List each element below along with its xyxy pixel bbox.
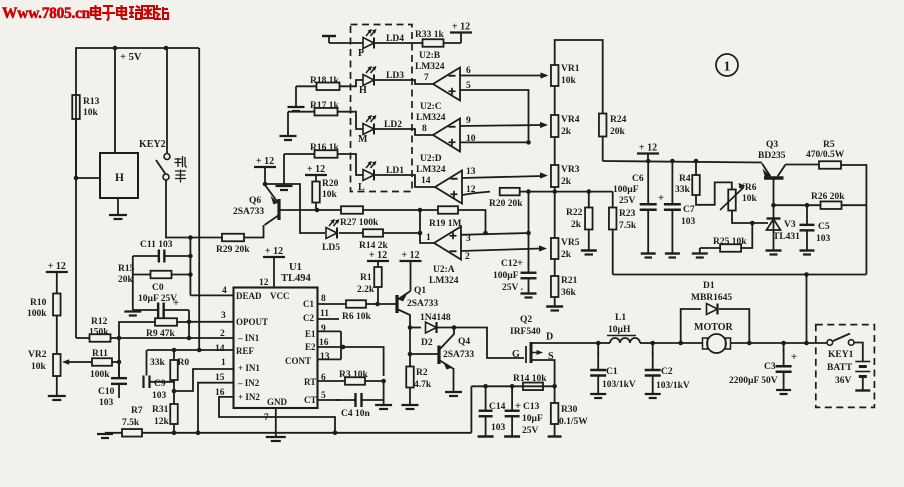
svg-text:12: 12 xyxy=(259,278,269,288)
potentiometer VR5 xyxy=(551,238,559,259)
ground R25 xyxy=(699,248,701,253)
wire D2 to Q2 gate xyxy=(454,328,524,359)
svg-text:DEAD: DEAD xyxy=(236,291,262,301)
svg-text:D: D xyxy=(546,332,553,343)
ground H xyxy=(117,198,119,214)
svg-text:C10: C10 xyxy=(98,387,115,397)
svg-text:3: 3 xyxy=(221,311,226,321)
svg-text:+ 12: + 12 xyxy=(452,22,470,33)
svg-text:Q3: Q3 xyxy=(766,140,778,150)
wire VR1 top loop xyxy=(555,40,603,113)
dashed box KEY1 BATT xyxy=(816,325,875,408)
wire U2A minus to VR5 wiper xyxy=(461,249,541,252)
svg-text:GND: GND xyxy=(267,397,288,407)
wire R13 to H box xyxy=(75,119,77,178)
svg-text:R3 10k: R3 10k xyxy=(339,370,368,380)
ground pin7 xyxy=(275,408,277,436)
op-amp U2:A xyxy=(434,227,461,260)
svg-text:+ 12: + 12 xyxy=(265,246,283,257)
svg-text:VR4: VR4 xyxy=(561,115,580,125)
svg-text:V3: V3 xyxy=(784,220,796,230)
svg-text:E2: E2 xyxy=(305,342,316,352)
resistor R23 xyxy=(612,192,614,208)
svg-text:103/1kV: 103/1kV xyxy=(602,380,636,390)
op-amp U2:C xyxy=(433,119,460,152)
switch KEY1 xyxy=(807,342,828,344)
label KEY2 brake char1 xyxy=(175,156,188,167)
svg-text:L: L xyxy=(358,182,365,193)
wire LD2 to U2C xyxy=(374,129,433,135)
capacitor C2 xyxy=(652,353,654,371)
led LD4 xyxy=(363,38,374,49)
wire LD1 to U2D xyxy=(374,175,435,187)
svg-text:20k: 20k xyxy=(610,127,626,137)
svg-text:12k: 12k xyxy=(154,417,170,427)
ground R7 xyxy=(104,432,106,434)
wire VR4-VR3 xyxy=(554,137,556,165)
ground R18 xyxy=(295,86,297,106)
svg-text:10k: 10k xyxy=(322,190,338,200)
node Q6 collector junction xyxy=(263,182,268,187)
svg-text:10k: 10k xyxy=(31,362,47,372)
wire KEY2 to R29 node xyxy=(166,180,223,238)
wire Q3 collector to R5 xyxy=(786,164,820,166)
svg-text:R31: R31 xyxy=(152,405,169,415)
label KEY2 brake char2 xyxy=(175,170,186,183)
svg-text:U2:C: U2:C xyxy=(420,102,442,112)
capacitor C3 xyxy=(783,349,785,366)
svg-text:C14: C14 xyxy=(489,402,506,412)
wire VR1-VR4 xyxy=(554,86,556,115)
svg-text:470/0.5W: 470/0.5W xyxy=(806,150,845,160)
pin C2 stub xyxy=(318,318,340,320)
svg-text:– IN1: – IN1 xyxy=(237,333,260,343)
svg-text:9: 9 xyxy=(321,324,326,334)
svg-text:P: P xyxy=(358,48,364,59)
wire -IN2 pin15 xyxy=(198,383,234,433)
svg-text:2SA733: 2SA733 xyxy=(407,299,438,309)
svg-text:LD5: LD5 xyxy=(322,243,340,253)
svg-text:R5: R5 xyxy=(823,140,835,150)
capacitor C5 xyxy=(806,205,808,225)
svg-text:2SA733: 2SA733 xyxy=(443,350,474,360)
svg-text:LM324: LM324 xyxy=(416,165,446,175)
wire R1 to Q1 base xyxy=(378,303,397,305)
svg-text:VCC: VCC xyxy=(270,291,290,301)
svg-text:R21: R21 xyxy=(561,276,578,286)
svg-text:2200µF 50V: 2200µF 50V xyxy=(729,376,778,386)
svg-text:7.5k: 7.5k xyxy=(122,418,140,428)
wire U2D plus to R20k xyxy=(462,193,475,195)
wire KEY2 node to DEAD xyxy=(189,238,191,296)
svg-text:+ 12: + 12 xyxy=(639,143,657,154)
led LD3 xyxy=(363,75,374,86)
svg-text:2SA733: 2SA733 xyxy=(233,207,264,217)
svg-text:C9: C9 xyxy=(154,379,166,389)
svg-text:R10: R10 xyxy=(30,298,47,308)
wire Q6 base xyxy=(279,209,317,211)
node source xyxy=(552,384,557,389)
wire R23 to sense rail xyxy=(612,230,614,275)
svg-text:C7: C7 xyxy=(683,205,695,215)
svg-text:10k: 10k xyxy=(742,194,758,204)
power +12 R33 xyxy=(444,42,462,44)
wire rail up to source node xyxy=(470,386,472,433)
wire C0 to node xyxy=(188,310,190,323)
svg-text:VR5: VR5 xyxy=(561,238,580,248)
wire VR5-R21 xyxy=(554,259,556,276)
svg-text:U2:A: U2:A xyxy=(433,265,455,275)
svg-text:36k: 36k xyxy=(561,288,577,298)
resistor R20 10k xyxy=(312,182,320,203)
wire +IN1 pin1 xyxy=(174,369,234,391)
svg-text:LM324: LM324 xyxy=(416,113,446,123)
wire left column to R12 xyxy=(75,178,77,338)
svg-text:G: G xyxy=(512,349,520,360)
svg-text:R30: R30 xyxy=(561,405,578,415)
op-amp U2:D xyxy=(435,171,462,204)
svg-text:4: 4 xyxy=(222,286,227,296)
svg-text:VR3: VR3 xyxy=(561,165,580,175)
wire R17 to LD2 xyxy=(338,112,364,129)
svg-text:150k: 150k xyxy=(89,328,109,338)
svg-text:+: + xyxy=(658,192,664,204)
potentiometer VR4 xyxy=(551,115,559,137)
svg-text:2: 2 xyxy=(465,252,470,262)
svg-text:R1: R1 xyxy=(360,273,372,283)
wire node-VR5 xyxy=(554,192,556,238)
ground C11 R15 rail xyxy=(132,256,134,310)
svg-text:VR6: VR6 xyxy=(738,183,757,193)
svg-text:25V: 25V xyxy=(522,426,539,436)
led LD2 xyxy=(363,124,374,135)
svg-text:LM324: LM324 xyxy=(415,62,445,72)
wire U2B plus down xyxy=(460,90,529,142)
ground R2 xyxy=(409,388,411,405)
resistor R31 xyxy=(170,404,178,424)
svg-text:R19 1M: R19 1M xyxy=(429,219,461,229)
svg-text:2.2k: 2.2k xyxy=(357,285,375,295)
svg-text:Www.7805.cn: Www.7805.cn xyxy=(2,5,91,22)
svg-text:11: 11 xyxy=(320,309,329,319)
svg-text:R4: R4 xyxy=(679,174,691,184)
dashed box LED block xyxy=(351,25,413,192)
wire LD3 to U2B xyxy=(374,80,433,84)
node drain xyxy=(596,341,601,346)
regulator V3 TL431 xyxy=(773,205,775,250)
svg-text:– IN2: – IN2 xyxy=(237,378,260,388)
resistor R6 xyxy=(346,300,366,308)
wire VR2 wiper to R11 xyxy=(77,361,92,363)
svg-text:15: 15 xyxy=(215,373,225,383)
wire H top xyxy=(114,48,116,153)
svg-text:TL494: TL494 xyxy=(281,273,312,284)
svg-text:C11 103: C11 103 xyxy=(140,240,173,250)
wire REF drop to C9 xyxy=(146,350,148,376)
svg-text:R20 20k: R20 20k xyxy=(489,199,523,209)
resistor R29 xyxy=(222,234,244,242)
led LD4 row terminal xyxy=(322,35,336,37)
svg-text:E1: E1 xyxy=(305,329,316,339)
wire E2 to R3 node xyxy=(343,347,384,376)
svg-text:Q1: Q1 xyxy=(414,286,426,296)
svg-text:100k: 100k xyxy=(90,370,110,380)
wire source row xyxy=(471,385,554,387)
node C2 xyxy=(650,341,655,346)
svg-text:103: 103 xyxy=(152,391,167,401)
wire R0 bottom xyxy=(173,380,175,404)
wire sense rail right end xyxy=(613,274,867,276)
ground R3 C4 xyxy=(375,404,392,406)
svg-text:R29 20k: R29 20k xyxy=(216,245,250,255)
svg-text:+: + xyxy=(517,257,523,269)
wire +IN2 pin16 xyxy=(219,397,335,433)
svg-text:C4 10n: C4 10n xyxy=(341,409,370,419)
wire KEY1 drop xyxy=(806,275,808,344)
wire U2A output xyxy=(420,210,434,243)
wire U2B minus to VR1 wiper xyxy=(460,75,543,77)
svg-text:25V: 25V xyxy=(619,196,636,206)
svg-text:0.1/5W: 0.1/5W xyxy=(559,417,588,427)
resistor R19 1M xyxy=(420,209,438,211)
capacitor C10 xyxy=(118,364,120,378)
svg-text:M: M xyxy=(358,134,368,145)
svg-text:R33 1k: R33 1k xyxy=(415,30,444,40)
svg-text:LM324: LM324 xyxy=(429,276,459,286)
wire R18 to LD3 xyxy=(340,80,364,86)
svg-text:C6: C6 xyxy=(632,174,644,184)
capacitor C12 xyxy=(528,233,530,266)
svg-text:R20: R20 xyxy=(322,179,339,189)
svg-text:C5: C5 xyxy=(818,222,830,232)
potentiometer VR6 xyxy=(728,190,736,211)
resistor R10 xyxy=(53,294,61,316)
svg-text:10k: 10k xyxy=(561,76,577,86)
wire motor to C3 xyxy=(749,342,806,344)
svg-text:C3: C3 xyxy=(764,362,776,372)
svg-text:25V .: 25V . xyxy=(502,283,523,293)
wire R3 node to ground xyxy=(383,381,385,404)
svg-text:C1: C1 xyxy=(606,367,618,377)
svg-text:2k: 2k xyxy=(561,177,572,187)
svg-text:10µF: 10µF xyxy=(522,414,543,424)
svg-text:C0: C0 xyxy=(152,283,164,293)
svg-text:R25 10k: R25 10k xyxy=(713,237,747,247)
svg-text:U2:D: U2:D xyxy=(420,154,442,164)
wire U2A plus xyxy=(461,233,529,235)
resistor R20 20k xyxy=(500,188,520,196)
capacitor C4 xyxy=(318,399,341,401)
svg-text:+ 5V: + 5V xyxy=(120,52,142,63)
wire node to -IN1 xyxy=(188,322,190,338)
ground Q4 xyxy=(453,368,455,391)
svg-text:Q6: Q6 xyxy=(249,196,261,206)
node R27-R19 junction xyxy=(418,208,423,213)
svg-text:10k: 10k xyxy=(83,108,99,118)
svg-text:VR1: VR1 xyxy=(561,64,580,74)
svg-text:7: 7 xyxy=(424,73,429,83)
svg-text:7.5k: 7.5k xyxy=(619,221,637,231)
node LD5-R14 junction xyxy=(418,231,423,236)
wire main line to motor xyxy=(653,342,681,344)
svg-text:4.7k: 4.7k xyxy=(414,380,432,390)
svg-text:CONT: CONT xyxy=(285,356,311,366)
resistor R4 xyxy=(695,161,697,175)
capacitor C6 xyxy=(647,161,649,204)
svg-text:1: 1 xyxy=(221,358,226,368)
svg-text:R24: R24 xyxy=(610,115,627,125)
svg-text:L1: L1 xyxy=(615,313,626,323)
wire R16 to LD1 xyxy=(338,154,364,175)
wire U2D minus to VR3 wiper xyxy=(462,176,542,178)
svg-text:103: 103 xyxy=(99,398,114,408)
svg-text:H: H xyxy=(115,172,124,184)
svg-text:+: + xyxy=(791,351,797,363)
svg-text:10µH: 10µH xyxy=(608,325,631,335)
transistor Q1 xyxy=(395,295,398,313)
svg-text:R11: R11 xyxy=(92,349,108,359)
wire vert node x119 xyxy=(118,338,120,378)
capacitor C13 xyxy=(511,391,513,411)
svg-text:R7: R7 xyxy=(131,406,143,416)
svg-text:R2: R2 xyxy=(416,368,428,378)
svg-text:1N4148: 1N4148 xyxy=(420,313,451,323)
svg-text:20k: 20k xyxy=(118,275,134,285)
svg-text:+ IN1: + IN1 xyxy=(238,363,260,373)
svg-text:14: 14 xyxy=(215,344,225,354)
svg-text:U2:B: U2:B xyxy=(419,51,441,61)
resistor R2 xyxy=(409,354,411,366)
wire VR6 to TL431 ref xyxy=(732,211,768,224)
wire R10-VR2 xyxy=(56,316,58,355)
svg-text:103: 103 xyxy=(681,217,696,227)
svg-text:C1: C1 xyxy=(303,299,314,309)
svg-text:S: S xyxy=(548,351,554,362)
svg-text:33k: 33k xyxy=(150,358,166,368)
resistor R11 xyxy=(92,358,112,366)
svg-text:13: 13 xyxy=(320,352,330,362)
svg-text:8: 8 xyxy=(422,124,427,134)
resistor R21 xyxy=(551,276,559,297)
wire bottom sense rail xyxy=(142,432,471,434)
transistor Q6 xyxy=(277,199,280,220)
svg-text:8: 8 xyxy=(321,294,326,304)
svg-text:CT: CT xyxy=(304,395,317,405)
resistor R30 xyxy=(554,386,556,403)
svg-text:R27 100k: R27 100k xyxy=(340,218,379,228)
svg-text:2: 2 xyxy=(220,329,225,339)
svg-text:33k: 33k xyxy=(675,185,691,195)
led LD5 xyxy=(326,228,337,239)
wire VR3-node xyxy=(554,187,556,192)
svg-text:H: H xyxy=(359,85,367,96)
svg-text:R23: R23 xyxy=(619,209,636,219)
wire R26 row xyxy=(774,204,821,206)
wire U2C minus to VR4 wiper xyxy=(460,125,542,126)
ic U1 TL494 box xyxy=(234,288,318,409)
svg-text:2k: 2k xyxy=(561,250,572,260)
svg-text:MOTOR: MOTOR xyxy=(694,322,733,333)
svg-text:R26 20k: R26 20k xyxy=(811,192,845,202)
svg-text:KEY2: KEY2 xyxy=(139,139,166,150)
svg-text:+ 12: + 12 xyxy=(369,250,387,261)
svg-text:+: + xyxy=(515,400,521,412)
wire +12 rail right xyxy=(603,161,762,163)
svg-text:+ IN2: + IN2 xyxy=(238,392,260,402)
svg-text:1: 1 xyxy=(724,60,731,75)
wire setpoint column xyxy=(528,192,530,233)
led LD1 xyxy=(363,170,374,181)
ground R16 xyxy=(283,154,285,185)
svg-text:R22: R22 xyxy=(566,208,583,218)
resistor R33 xyxy=(423,39,444,47)
svg-text:KEY1: KEY1 xyxy=(828,350,854,360)
ground R21 xyxy=(554,297,556,306)
resistor R24 xyxy=(599,114,607,137)
svg-text:R6 10k: R6 10k xyxy=(342,312,371,322)
wire R5 to right rail xyxy=(841,165,866,275)
svg-text:REF: REF xyxy=(236,346,255,356)
svg-text:14: 14 xyxy=(421,176,431,186)
node Q1-D2 xyxy=(408,325,413,330)
ground VR2 xyxy=(56,376,58,395)
svg-text:36V: 36V xyxy=(835,376,852,386)
svg-text:2k: 2k xyxy=(561,127,572,137)
svg-text:Q2: Q2 xyxy=(520,315,532,325)
wire U2C plus xyxy=(460,141,529,143)
wire -IN1 row xyxy=(119,337,234,339)
svg-text:9: 9 xyxy=(466,116,471,126)
svg-text:2k: 2k xyxy=(571,220,582,230)
node D2-Q4 xyxy=(452,325,457,330)
svg-text:103/1kV: 103/1kV xyxy=(656,381,690,391)
potentiometer VR1 xyxy=(551,65,559,86)
svg-text:103: 103 xyxy=(491,423,506,433)
wiper VR2 xyxy=(65,361,77,363)
transistor Q4 xyxy=(437,346,440,365)
svg-text:RT: RT xyxy=(304,377,316,387)
svg-text:TL431: TL431 xyxy=(773,232,800,242)
resistor R1 xyxy=(374,267,382,287)
svg-text:+ 12: + 12 xyxy=(256,156,274,167)
svg-text:+ 12: + 12 xyxy=(48,261,66,272)
wire C1 pin8 to R6 xyxy=(318,303,347,305)
svg-text:MBR1645: MBR1645 xyxy=(691,293,732,303)
capacitor C7 xyxy=(671,161,673,204)
svg-text:R0: R0 xyxy=(178,358,190,368)
svg-text:R12: R12 xyxy=(91,317,108,327)
resistor R22 xyxy=(588,192,590,208)
svg-text:VR2: VR2 xyxy=(28,350,47,360)
svg-text:C13: C13 xyxy=(523,402,540,412)
hall sensor H xyxy=(100,153,138,198)
svg-text:7: 7 xyxy=(264,413,269,423)
wire R4 to VR6 xyxy=(696,182,732,204)
potentiometer VR2 xyxy=(53,354,61,376)
wire +5V down to REF xyxy=(198,48,200,350)
svg-text:100k: 100k xyxy=(27,309,47,319)
resistor R14b 2k xyxy=(339,232,363,234)
wire Q1 to Q4 base xyxy=(409,328,411,355)
wire OPOUT xyxy=(189,321,234,323)
svg-text:D2: D2 xyxy=(421,338,433,348)
wire divider node row xyxy=(529,191,613,193)
wire R19 feedback xyxy=(458,210,486,233)
svg-text:6: 6 xyxy=(466,66,471,76)
svg-text:BD235: BD235 xyxy=(758,151,786,161)
svg-text:+ 12: + 12 xyxy=(401,250,419,261)
svg-text:1: 1 xyxy=(426,233,431,243)
